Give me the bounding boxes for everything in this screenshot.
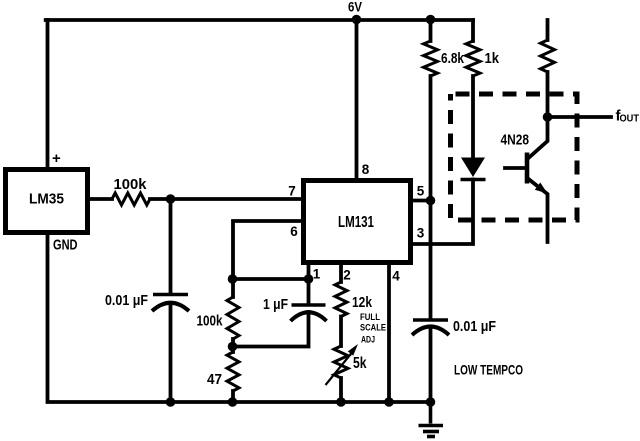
svg-text:6: 6	[290, 224, 298, 239]
svg-text:OUT: OUT	[620, 113, 640, 125]
svg-text:1k: 1k	[485, 51, 500, 67]
svg-text:FULL: FULL	[360, 312, 380, 323]
svg-text:LOW TEMPCO: LOW TEMPCO	[454, 363, 523, 378]
svg-text:5: 5	[417, 184, 425, 199]
svg-text:0.01 μF: 0.01 μF	[453, 319, 496, 335]
svg-text:LM131: LM131	[338, 214, 374, 231]
svg-text:GND: GND	[53, 237, 78, 254]
svg-text:8: 8	[362, 162, 370, 177]
svg-text:100k: 100k	[114, 177, 148, 193]
svg-text:5k: 5k	[353, 355, 367, 372]
svg-text:+: +	[52, 150, 61, 167]
svg-text:0.01 μF: 0.01 μF	[105, 293, 148, 309]
svg-text:ADJ: ADJ	[361, 335, 375, 346]
svg-text:47: 47	[207, 372, 222, 388]
svg-text:4: 4	[392, 269, 400, 284]
svg-text:12k: 12k	[352, 294, 373, 311]
svg-text:SCALE: SCALE	[360, 323, 386, 334]
svg-text:6.8k: 6.8k	[441, 51, 465, 67]
svg-text:3: 3	[417, 226, 425, 241]
svg-text:4N28: 4N28	[501, 133, 530, 149]
svg-text:100k: 100k	[197, 314, 224, 330]
svg-text:2: 2	[343, 268, 351, 283]
svg-text:1 μF: 1 μF	[263, 297, 288, 313]
svg-text:6V: 6V	[348, 0, 362, 15]
svg-text:7: 7	[288, 184, 296, 199]
svg-text:1: 1	[313, 267, 321, 282]
svg-text:LM35: LM35	[29, 191, 64, 208]
